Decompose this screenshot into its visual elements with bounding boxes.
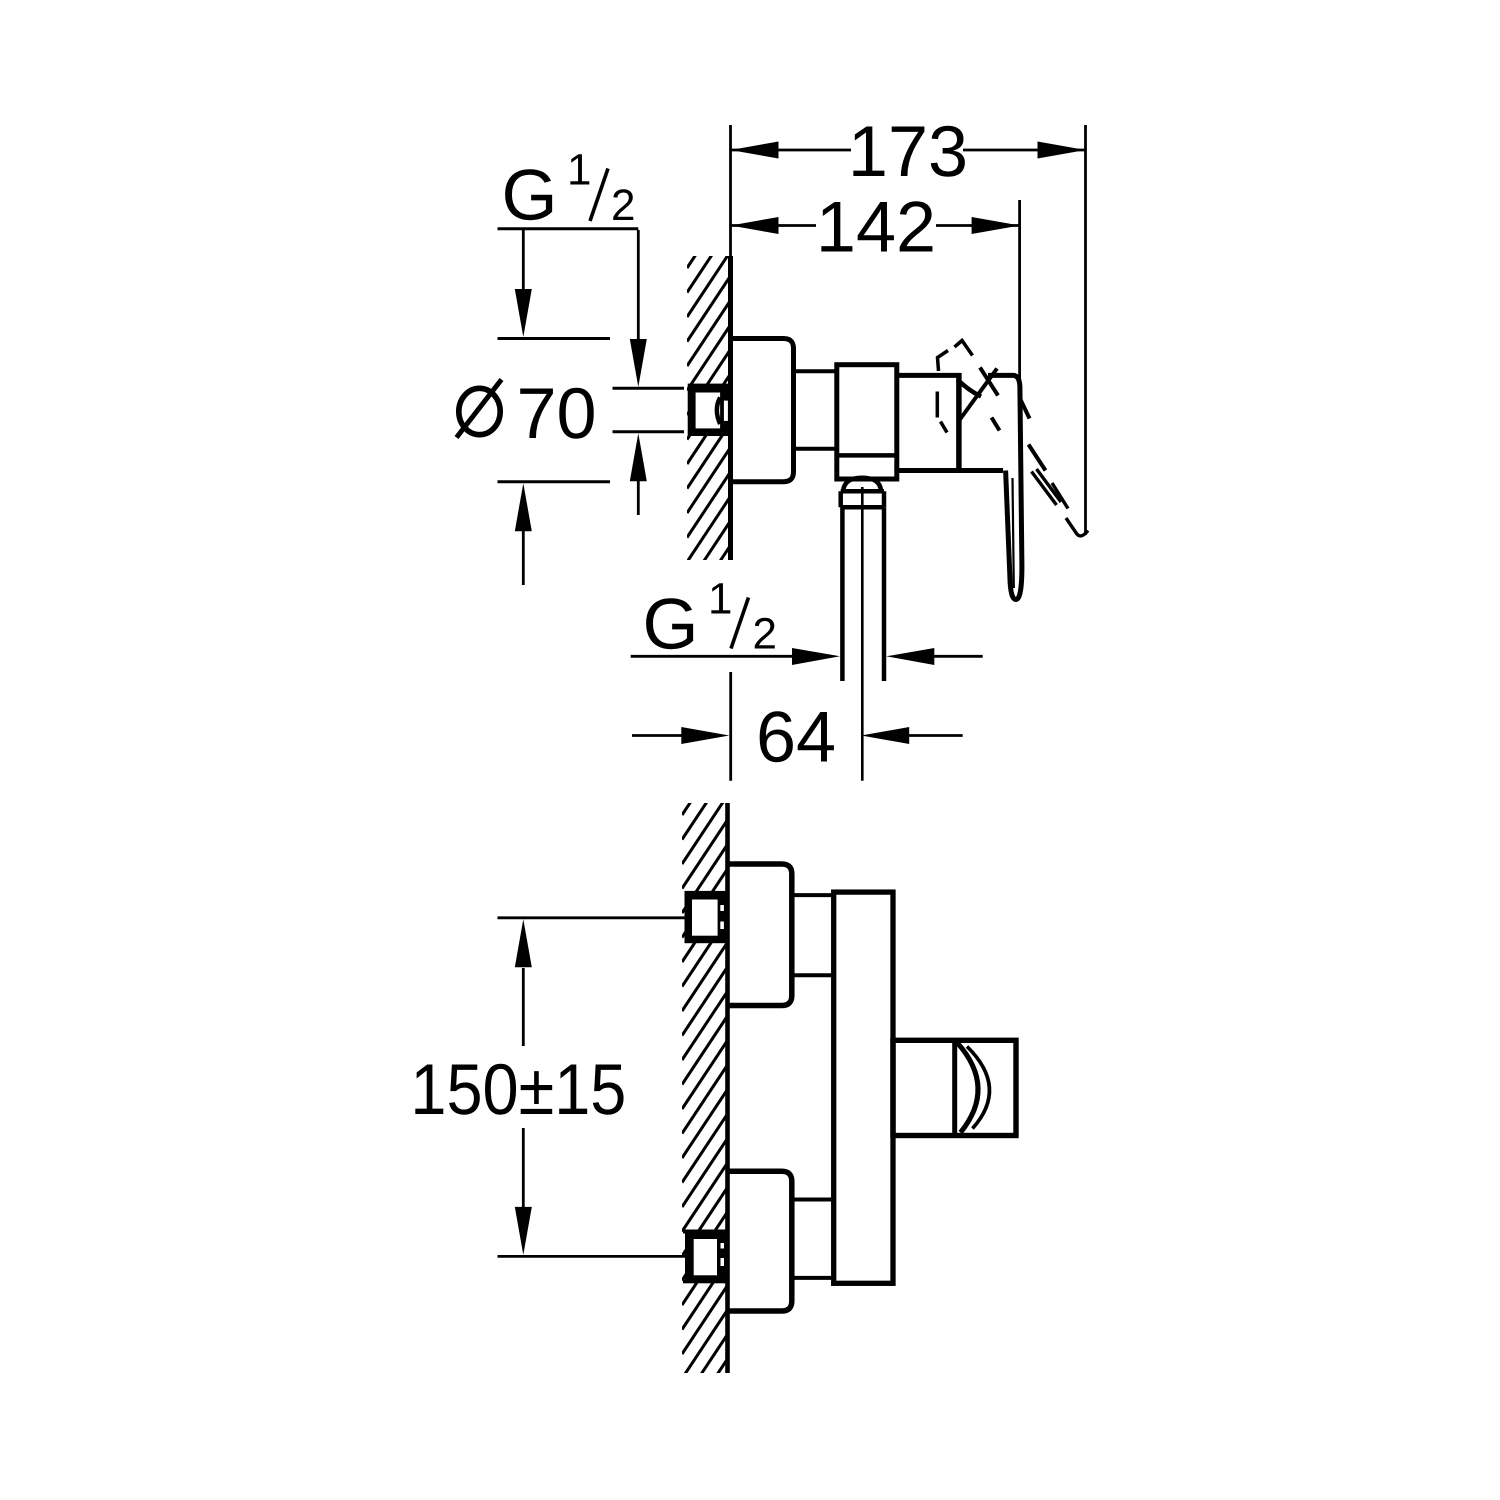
svg-text:1: 1 [708, 575, 732, 624]
svg-text:150±15: 150±15 [410, 1050, 626, 1130]
svg-text:70: 70 [517, 374, 597, 454]
svg-text:G: G [502, 156, 558, 236]
svg-text:173: 173 [848, 112, 968, 192]
svg-text:2: 2 [611, 181, 635, 230]
svg-text:2: 2 [753, 609, 777, 658]
svg-text:142: 142 [816, 188, 936, 268]
svg-text:1: 1 [567, 146, 591, 195]
svg-text:G: G [643, 584, 699, 664]
svg-text:64: 64 [756, 698, 836, 778]
